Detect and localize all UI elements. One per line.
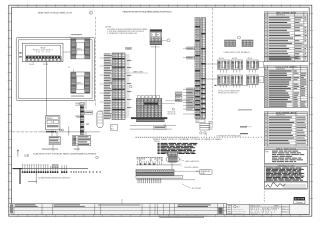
svg-text:2C: 2C (86, 123, 89, 126)
earth bond drops group 1 (22, 165, 49, 172)
door hinge marks (19, 52, 21, 57)
svg-text:B PLUG: B PLUG (232, 58, 238, 60)
wire spare cores leader (125, 71, 148, 74)
svg-text:PANEL TERMINAL LABELS: PANEL TERMINAL LABELS (276, 12, 297, 15)
table: RELAY TERMINAL LABELS (264, 111, 307, 146)
swing frame boundary right (dashed) (211, 8, 213, 128)
svg-text:LINKS: LINKS (208, 127, 212, 129)
svg-text:SHEETS: SHEETS (274, 206, 279, 208)
aux box row1 (259, 62, 264, 68)
balloon ref 3 (172, 108, 174, 110)
note box mid (154, 126, 166, 129)
door connector module MOD1 (71, 38, 90, 59)
RLY1 terminal block row (46, 131, 56, 133)
bottom rail caption (182, 184, 201, 190)
wire door drop right (85, 101, 87, 109)
svg-text:D41 21 054: D41 21 054 (36, 51, 50, 53)
door terminal row TS-D upper (26, 56, 62, 58)
svg-text:DESCRIPTION: DESCRIPTION (276, 69, 285, 71)
TS3 stub wires (183, 48, 195, 114)
svg-text:C PLUG: C PLUG (247, 58, 253, 60)
aux box row2 (259, 77, 264, 83)
ground stud GS2 (204, 132, 206, 134)
balloon ref 6 (89, 11, 92, 15)
wire TS4 to plug A2 (206, 78, 218, 80)
matrix header label boxes (137, 96, 160, 99)
cubicle socket SK2 (242, 40, 253, 47)
svg-text:FITTED: FITTED (208, 129, 213, 131)
rail drop wires (138, 178, 161, 183)
svg-text:PLUG & LINK LABELS: PLUG & LINK LABELS (275, 65, 297, 68)
module top leader label (70, 34, 82, 37)
plug row2 bracket wire (214, 85, 248, 86)
plan view leader labels (42, 148, 80, 151)
cable gland bundle (166, 152, 180, 163)
plug note (218, 90, 241, 95)
svg-text:DRG No. TITLE: DRG No. TITLE (251, 206, 260, 208)
loom note below door (75, 102, 85, 107)
gland drop to rail (171, 163, 173, 170)
earth bus riser (thick) (19, 169, 21, 184)
strip side labels (127, 60, 131, 108)
top connector block TB1 (150, 30, 162, 49)
bottom terminal rail hatched row (136, 173, 174, 176)
svg-text:P2: P2 (68, 67, 70, 69)
general notes block (264, 164, 307, 181)
balloon ref plan (96, 156, 99, 159)
scale bar ruler (160, 216, 205, 218)
spare terms text (208, 121, 213, 132)
door connector module MOD2 (71, 72, 90, 93)
TS3 wire label boxes (187, 47, 195, 110)
zone tick above strip (121, 199, 123, 204)
link boxes under strips (200, 123, 210, 130)
module labels mid (168, 111, 176, 116)
ALSTOM logo (294, 197, 305, 204)
TS1 left wire stubs (100, 58, 104, 111)
border tick marks left (8, 14, 12, 207)
svg-text:2. FOR WIRE NUMBERING SEE WIRE: 2. FOR WIRE NUMBERING SEE WIRE SCHEDULE (107, 31, 144, 33)
wiring notes list (154, 141, 197, 154)
ground stud GS1 (200, 132, 202, 134)
plug row1 drop wires (220, 69, 255, 72)
terminal strip TS4 (201, 18, 206, 119)
svg-text:C2: C2 (111, 126, 113, 128)
plug B row1 (231, 60, 243, 69)
svg-text:WIRED FRONT VIEW OF RELAY PANE: WIRED FRONT VIEW OF RELAY PANEL (VIEWED … (123, 11, 172, 14)
svg-text:No: No (265, 115, 267, 117)
gland leader text (180, 160, 200, 164)
relay RLY1 box (46, 116, 60, 130)
bottom terminal rail TS6 numbered row (136, 170, 174, 173)
title block (218, 204, 310, 215)
svg-text:TS2: TS2 (197, 121, 200, 123)
earth bond drops group 2 (51, 166, 58, 172)
plug A row2 (218, 75, 230, 85)
svg-text:PLAN VIEW OF BOTTOM RELAY PANE: PLAN VIEW OF BOTTOM RELAY PANEL (UNDERFR… (33, 152, 96, 155)
wire TS4 to plug A1 (206, 63, 218, 65)
svg-text:RELAY TERMINAL LABELS: RELAY TERMINAL LABELS (276, 111, 297, 114)
wire label-box to MOD1 (63, 51, 71, 53)
wires JB to plan edge (53, 145, 78, 152)
svg-text:6: 6 (90, 13, 91, 15)
svg-text:GENERAL NOTES: GENERAL NOTES (277, 164, 295, 167)
qty label (28, 180, 37, 183)
mounting channel text (181, 164, 199, 169)
link box between groups (52, 164, 58, 167)
rail lower bracket (136, 179, 195, 181)
label 2-way (206, 133, 241, 137)
svg-text:SHEET 1 OF 2: SHEET 1 OF 2 (251, 213, 272, 215)
microfilm number boxes (290, 211, 308, 215)
plug C row1 (247, 60, 259, 69)
svg-text:No: No (265, 69, 267, 71)
wire door drop to relay box (46, 62, 48, 116)
svg-text:WIRED REAR VIEW OF TERMINAL ST: WIRED REAR VIEW OF TERMINAL STRINGS IN R… (153, 138, 222, 141)
balloon ref 5 (238, 36, 241, 39)
terminal strip TS1 (left tall) (112, 53, 125, 119)
rail stub wires and labels (138, 161, 162, 165)
svg-text:DESCRIPTION: DESCRIPTION (276, 115, 285, 117)
revision strip (9, 204, 227, 215)
svg-text:NOTES: NOTES (106, 27, 112, 29)
terminal row below matrix (136, 119, 164, 121)
svg-text:TYPE: TYPE (265, 151, 269, 153)
svg-text:CUBICLES PLUG DETAILS: CUBICLES PLUG DETAILS (224, 51, 251, 54)
plug label box above TS1 (126, 47, 132, 49)
rail clamp symbols (140, 163, 156, 165)
plug A row1 (218, 60, 230, 69)
wire bundle horizontal (12, 131, 40, 133)
balloon ref strip (130, 85, 132, 87)
svg-text:SHT 1: SHT 1 (282, 211, 286, 213)
drawing number cell (291, 205, 307, 211)
door label assembly box (22, 43, 63, 62)
svg-text:NTS: NTS (282, 208, 285, 210)
plug C row2 (247, 75, 259, 85)
wire rail to label (174, 171, 200, 172)
svg-text:CL 371 UNITS 1-4: CL 371 UNITS 1-4 (251, 211, 275, 213)
relay panel door outline (16, 38, 94, 101)
ladder text (176, 93, 182, 101)
door terminal row TS-D lower (26, 59, 62, 61)
TS5 side label box (85, 111, 93, 114)
TS1 wire number column (104, 54, 112, 120)
right mid labels (238, 109, 252, 134)
swing frame boundary left (dashed) (95, 17, 97, 107)
cable notes block (264, 147, 307, 163)
module ladder boxes L1-L4 (175, 92, 182, 102)
plug B row2 (231, 75, 243, 85)
dashed leader to title block (263, 188, 265, 203)
bottom rail top line (136, 164, 180, 166)
cubicle socket SK1 (225, 40, 236, 47)
svg-text:CABLE / WIRE NOTES: CABLE / WIRE NOTES (276, 147, 297, 150)
border tick marks top (18, 4, 300, 7)
label C2/RL1 (111, 125, 118, 131)
balloon ref 4 (162, 39, 170, 42)
earth bus extension (22, 168, 88, 170)
module pin label P2 (68, 67, 74, 72)
TS5 top cap (80, 103, 85, 105)
svg-text:WIRING SIDE OF CONNECTOR: WIRING SIDE OF CONNECTOR (218, 93, 238, 95)
door plug labels (29, 61, 48, 66)
svg-text:PLUG B: PLUG B (43, 64, 48, 66)
svg-text:RL1: RL1 (111, 128, 114, 130)
border tick marks right (309, 14, 313, 199)
wire TB1 to matrix (155, 45, 157, 99)
junction box JB1 (73, 136, 91, 146)
label under door modules (71, 95, 84, 98)
junction box JB2 (49, 137, 60, 145)
junction dots (52, 131, 70, 132)
TS1 wire stubs (125, 55, 130, 117)
svg-text:LOOMS: LOOMS (24, 156, 29, 158)
TS5 left tick wire (75, 116, 80, 118)
notes block top-centre (106, 27, 148, 35)
strip bottom label TS2 (196, 119, 205, 123)
relay RL1 (rounded) (97, 111, 103, 127)
svg-text:REAR VIEW OF RELAY PANEL DOOR: REAR VIEW OF RELAY PANEL DOOR (38, 12, 72, 15)
plug row2 drop wires (220, 85, 255, 88)
earth bus bar EB1 (13, 168, 23, 170)
svg-text:TERM BLOCK: TERM BLOCK (151, 46, 160, 48)
wiring matrix MX1 (131, 99, 167, 120)
trailing bond dots (71, 171, 101, 172)
earth bond drops group 3 (62, 165, 67, 172)
terminal rail detail label (200, 170, 213, 175)
svg-text:ALSTOM: ALSTOM (295, 198, 305, 201)
table: PLUG AND LINK LABELS (264, 65, 307, 107)
wire matrix leader right (162, 101, 190, 104)
approval stamp box (264, 182, 307, 190)
rail extra cell row (136, 176, 183, 179)
svg-text:TERMS: TERMS (208, 124, 213, 126)
wire riser drop (35, 169, 37, 184)
plug labels A/B/C (219, 57, 253, 60)
svg-text:DESCRIPTION: DESCRIPTION (276, 15, 285, 17)
terminal strip TS3 (195, 18, 200, 119)
arrow to cab looms (17, 150, 29, 159)
table: PANEL TERMINAL LABELS (264, 12, 307, 62)
svg-text:PL: PL (152, 34, 154, 36)
terminal strip TS5 (centre column) (80, 105, 84, 135)
ground studs GS3 GS4 (59, 129, 63, 131)
border tick marks bottom (18, 215, 300, 218)
wires lower mid (130, 125, 176, 129)
front view bottom edge dashes (136, 136, 262, 138)
svg-text:No: No (265, 15, 267, 17)
table footer rows T1 (264, 57, 307, 61)
